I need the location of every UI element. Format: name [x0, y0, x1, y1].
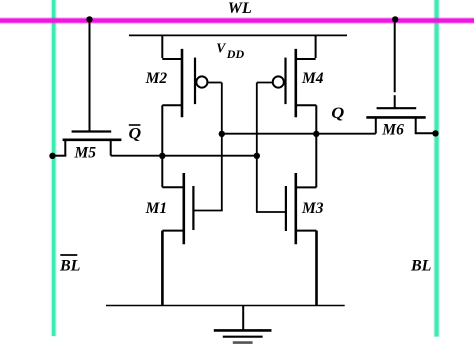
- svg-text:Q: Q: [129, 126, 142, 143]
- M6 gate bar: [377, 107, 417, 109]
- svg-text:BL: BL: [410, 257, 432, 274]
- svg-text:DD: DD: [226, 47, 245, 61]
- junction dot Q / M4-M3 branch: [313, 131, 319, 137]
- wire M2 drain to VDD: [161, 36, 163, 58]
- M3 gate bar: [285, 186, 287, 231]
- svg-text:M5: M5: [74, 144, 97, 161]
- M2 gate bar: [194, 58, 196, 105]
- M1 drain stub (to Q-bar side): [162, 186, 185, 188]
- ground stem: [242, 306, 244, 330]
- junction dot M6 / BL: [432, 130, 438, 136]
- wire WL to M5 gate: [89, 19, 91, 132]
- svg-text:M2: M2: [145, 70, 168, 87]
- wire M3 gate horizontal: [256, 211, 286, 213]
- M2 channel bar: [181, 49, 184, 117]
- wire WL to M6 gate (lower part after small gap): [394, 95, 396, 108]
- M6 left terminal drop (to Q): [375, 117, 377, 134]
- label VDD: [216, 40, 244, 61]
- wire M3 source to ground rail: [315, 231, 318, 306]
- M2 source stub (to VDD side): [162, 58, 183, 60]
- M4 channel bar: [294, 49, 297, 117]
- M1 source stub (to ground side): [162, 230, 184, 232]
- M3 drain stub (to Q side): [295, 186, 317, 188]
- bit line BL-bar (left cyan vertical): [51, 0, 57, 337]
- BL-bar overline: [60, 254, 77, 256]
- M4 source stub (to VDD side): [295, 58, 316, 60]
- transistor M6 (NMOS access, horizontal): [366, 108, 435, 133]
- wire M2 gate to node Q (horizontal from bubble): [207, 82, 221, 84]
- node Q-bar horizontal wire: [111, 155, 257, 157]
- M3 source stub (to ground side): [295, 230, 317, 232]
- wire M1 source to ground rail: [161, 231, 164, 306]
- svg-text:Q: Q: [331, 105, 344, 122]
- wire M1 gate horizontal: [193, 210, 222, 212]
- M3 channel bar: [294, 173, 297, 244]
- transistor M1 (NMOS pull-down): [162, 173, 193, 244]
- wire M4 drain to VDD: [315, 36, 317, 58]
- label BL-bar: [59, 255, 81, 274]
- VDD rail: [129, 34, 347, 36]
- wire M4 source down to M3 drain (Q branch): [315, 105, 317, 187]
- M2 gate bubble (PMOS): [196, 76, 207, 87]
- svg-text:M1: M1: [145, 200, 168, 217]
- ground bar bottom (clipped at image edge): [233, 341, 253, 344]
- ground bar middle: [223, 336, 263, 338]
- word line WL (magenta horizontal): [0, 17, 474, 24]
- M4 gate bubble (PMOS): [273, 76, 284, 87]
- node Q-bar label: [129, 125, 142, 143]
- bit line BL (right cyan vertical): [433, 0, 440, 337]
- wire WL to M6 gate (upper part): [394, 19, 396, 92]
- junction dot WL/M5: [86, 16, 92, 22]
- svg-text:V: V: [216, 40, 226, 55]
- wire M6 right terminal to BL: [415, 132, 436, 134]
- M6 right terminal drop: [415, 117, 417, 134]
- junction dot Q-bar / M4 gate: [254, 153, 260, 159]
- ground: [214, 306, 272, 343]
- svg-text:BL: BL: [59, 257, 81, 274]
- transistor M3 (NMOS pull-down): [286, 173, 317, 244]
- M5 right terminal drop (to Q-bar): [110, 139, 112, 156]
- M5 channel bar: [63, 139, 122, 142]
- wire M2/M1 gates vertical (node Q): [221, 83, 223, 211]
- wire M4 gate to node Q-bar (horizontal from bubble): [257, 82, 273, 84]
- M5 gate bar: [72, 130, 112, 132]
- ground rail: [106, 305, 345, 307]
- M2 drain stub (to Q-bar side): [162, 104, 183, 106]
- svg-text:M4: M4: [301, 70, 324, 87]
- junction dot WL/M6: [392, 16, 398, 22]
- M1 gate bar: [192, 186, 194, 230]
- transistor M2 (PMOS pull-up): [162, 49, 207, 117]
- junction dot Q / M2 gate: [219, 131, 225, 137]
- wire M2 source down to M1 drain (Q-bar branch): [161, 105, 163, 187]
- transistor M5 (NMOS access, horizontal): [52, 132, 121, 156]
- junction dot M5 / BL-bar: [49, 153, 55, 159]
- junction dot Q-bar / M2-M1 branch: [159, 153, 165, 159]
- svg-text:WL: WL: [228, 0, 252, 17]
- transistor M4 (PMOS pull-up): [273, 49, 317, 117]
- wire M4/M3 gates vertical (node Q-bar): [256, 83, 258, 213]
- Q-bar overline: [129, 124, 141, 126]
- svg-text:M3: M3: [301, 200, 324, 217]
- wire M5 left terminal to BL-bar: [52, 155, 66, 157]
- ground bar top: [214, 329, 272, 332]
- M1 channel bar: [183, 173, 186, 244]
- M4 drain stub (to Q side): [295, 104, 317, 106]
- node Q horizontal wire: [222, 133, 376, 135]
- M6 channel bar: [366, 116, 425, 119]
- M4 gate bar: [284, 58, 286, 105]
- svg-text:M6: M6: [381, 121, 404, 138]
- M5 left terminal drop: [64, 139, 66, 156]
